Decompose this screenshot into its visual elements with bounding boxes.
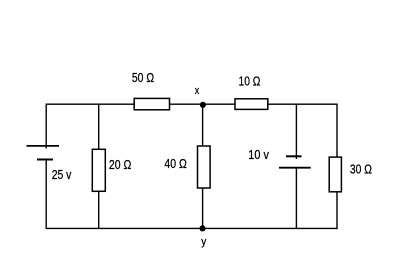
resistor 30 ohm (vertical box) xyxy=(329,157,341,192)
wire left branch upper (top wire down to battery top plate) xyxy=(45,104,47,149)
battery V1 25 v xyxy=(27,146,60,160)
resistor 10 ohm (horizontal box) xyxy=(235,99,268,110)
wire left branch lower (battery bottom plate down to bottom wire) xyxy=(45,160,47,230)
svg-text:40 Ω: 40 Ω xyxy=(164,156,187,171)
svg-text:10 v: 10 v xyxy=(248,147,269,162)
battery V2 10 v xyxy=(279,156,311,167)
wire bottom horizontal xyxy=(47,227,338,229)
wire 20-ohm branch vertical xyxy=(98,104,100,230)
svg-text:50 Ω: 50 Ω xyxy=(132,70,154,85)
svg-text:30 Ω: 30 Ω xyxy=(350,161,372,176)
node x (junction dot) xyxy=(200,102,206,108)
svg-text:y: y xyxy=(201,236,206,248)
svg-text:20 Ω: 20 Ω xyxy=(109,157,132,172)
wire 10v branch upper (top wire down to battery short plate) xyxy=(295,104,297,160)
resistor 50 ohm (horizontal box) xyxy=(134,98,169,109)
wire 10v branch lower (battery long plate down to bottom wire) xyxy=(295,168,297,229)
resistor 40 ohm (vertical box) xyxy=(198,146,211,188)
svg-text:10 Ω: 10 Ω xyxy=(239,73,261,88)
resistor 20 ohm (vertical box) xyxy=(92,149,105,191)
node y (junction dot) xyxy=(199,225,205,231)
wire right branch vertical xyxy=(336,104,338,230)
svg-text:x: x xyxy=(195,85,200,97)
wire middle branch vertical (node x to node y) xyxy=(202,104,204,228)
svg-text:25 v: 25 v xyxy=(52,167,72,182)
wire top horizontal (left wire to right wire) xyxy=(47,103,338,105)
